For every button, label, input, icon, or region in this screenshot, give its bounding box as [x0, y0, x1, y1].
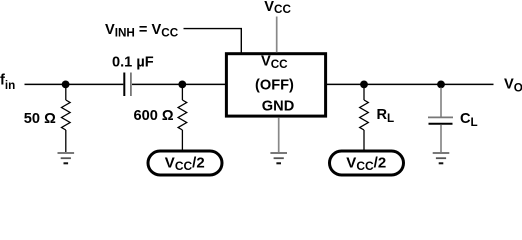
voltage source Vcc/2 left oval	[148, 151, 222, 175]
voltage source Vcc/2 right oval	[330, 151, 404, 175]
ground below 50 ohm	[58, 153, 75, 163]
wire Vinh to switch box top	[184, 29, 242, 55]
node Vo label	[504, 77, 522, 95]
wire Vcc to switch box	[276, 17, 278, 53]
svg-text:GND: GND	[262, 98, 294, 114]
wire node A to resistor 50 ohm	[65, 84, 67, 100]
wire resistor 600 ohm to Vcc/2 source	[181, 130, 183, 151]
label 600 ohm	[134, 108, 174, 124]
junction node D	[437, 81, 445, 89]
ground below CL	[433, 153, 450, 163]
wire resistor RL to Vcc/2 source	[363, 130, 365, 151]
wire switch box to ground	[278, 118, 280, 152]
svg-text:(OFF): (OFF)	[255, 78, 294, 94]
wire capacitor CL to ground	[440, 125, 442, 152]
resistor 50 ohm	[62, 100, 71, 130]
label Vcc/2 right	[346, 154, 386, 173]
label Vcc/2 left	[165, 154, 205, 173]
capacitor C1 left plate	[123, 73, 125, 97]
junction node A	[62, 81, 70, 89]
wire resistor 50 ohm to ground	[65, 130, 67, 152]
svg-text:VO: VO	[504, 77, 522, 95]
capacitor CL top plate	[428, 116, 453, 118]
svg-text:VCC: VCC	[264, 0, 291, 16]
resistor RL	[360, 100, 369, 130]
capacitor CL bottom plate	[429, 123, 453, 125]
ground below switch box	[270, 153, 287, 163]
junction node B	[178, 81, 186, 89]
wire node B to resistor 600 ohm	[181, 84, 183, 100]
switch box label Vcc	[261, 54, 288, 71]
capacitor C1 right plate	[130, 73, 132, 97]
switch box U1	[226, 54, 325, 116]
svg-text:600 Ω: 600 Ω	[134, 108, 174, 124]
wire switch box to output Vo	[325, 83, 494, 85]
node fin label	[0, 73, 15, 92]
svg-text:RL: RL	[377, 107, 395, 125]
svg-text:50 Ω: 50 Ω	[24, 111, 56, 127]
wire node C to resistor RL	[363, 84, 365, 100]
junction node C	[360, 81, 368, 89]
svg-text:0.1 µF: 0.1 µF	[112, 54, 154, 70]
wire capacitor to switch box	[132, 83, 227, 85]
svg-text:fin: fin	[0, 73, 15, 92]
svg-text:VINH = VCC: VINH = VCC	[105, 22, 179, 40]
label Vinh = Vcc	[105, 22, 179, 40]
power Vcc label top	[264, 0, 291, 16]
label CL	[460, 111, 478, 129]
wire fin to capacitor	[25, 83, 124, 85]
label 50 ohm	[24, 111, 56, 127]
capacitor C1 0.1 uF label	[112, 54, 154, 70]
svg-text:CL: CL	[460, 111, 478, 129]
switch box label GND	[262, 98, 294, 114]
switch box label OFF	[255, 78, 294, 94]
resistor 600 ohm	[178, 100, 187, 130]
label RL	[377, 107, 395, 125]
wire node D to capacitor CL	[440, 88, 442, 117]
